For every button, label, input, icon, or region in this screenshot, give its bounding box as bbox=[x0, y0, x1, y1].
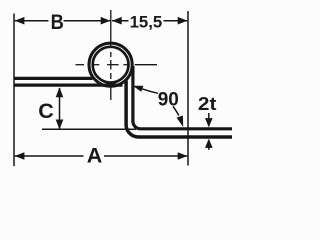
svg-text:90: 90 bbox=[158, 90, 179, 111]
svg-text:A: A bbox=[87, 143, 103, 167]
svg-text:15,5: 15,5 bbox=[130, 13, 163, 32]
svg-text:2t: 2t bbox=[198, 94, 217, 114]
svg-text:B: B bbox=[51, 11, 64, 35]
svg-text:C: C bbox=[38, 99, 54, 123]
